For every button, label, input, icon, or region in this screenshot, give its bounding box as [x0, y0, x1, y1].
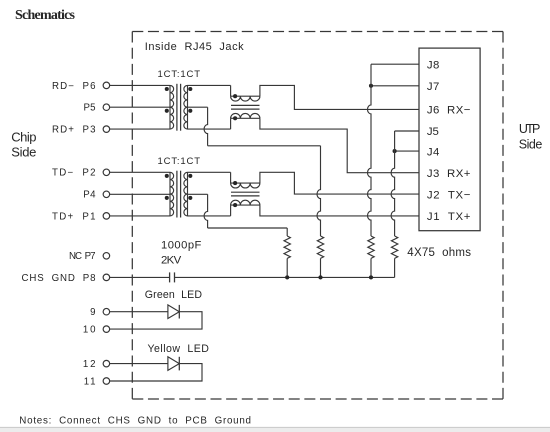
connector J (RJ45 jack) body	[419, 48, 480, 231]
resistor R4 bottom lead	[394, 258, 396, 277]
choke L2 polarity dots	[233, 181, 237, 207]
RX center-tap vertical with hop over P3 wire	[204, 107, 208, 146]
svg-text:Schematics: Schematics	[15, 8, 76, 23]
svg-text:P5: P5	[84, 103, 96, 114]
wire P4 to T2 primary center tap	[110, 193, 170, 195]
T2 polarity dots	[165, 174, 193, 200]
transformer T1 core	[177, 84, 181, 131]
label 4X75 ohms	[407, 247, 471, 259]
junction dot R1/bus	[285, 275, 289, 279]
svg-text:J2 TX−: J2 TX−	[427, 189, 471, 201]
transformer T1 primary winding	[170, 85, 174, 129]
window status bar	[0, 427, 550, 432]
junction dot R2/bus	[318, 275, 322, 279]
wire P3 to T1 primary	[110, 128, 170, 130]
pin 10 terminal circle	[103, 326, 110, 333]
dashed enclosure (Inside RJ45 Jack boundary)	[132, 32, 503, 400]
resistor R3 zigzag	[368, 236, 374, 258]
choke L1 polarity dots	[233, 94, 237, 120]
title Schematics	[15, 8, 76, 23]
resistor R3 bottom lead	[370, 258, 372, 277]
choke L1 bottom-left vertical	[230, 118, 232, 129]
chip-side pin labels	[22, 81, 97, 388]
wire pin 12 to LED D2	[110, 363, 168, 365]
svg-text:UTP: UTP	[519, 122, 540, 136]
svg-text:J5: J5	[427, 126, 439, 138]
wire T2 secondary center tap	[188, 193, 208, 195]
wire P6 to T1 primary	[110, 84, 170, 86]
svg-text:RD− P6: RD− P6	[52, 81, 96, 92]
svg-text:4X75 ohms: 4X75 ohms	[407, 247, 471, 259]
wire J7	[371, 85, 419, 87]
label Inside RJ45 Jack	[145, 41, 244, 53]
wire T2 secondary bottom to choke L2	[188, 215, 231, 217]
svg-text:CHS GND P8: CHS GND P8	[22, 273, 96, 284]
svg-text:Side: Side	[519, 137, 543, 151]
wire J5	[395, 130, 419, 132]
svg-text:RD+ P3: RD+ P3	[52, 125, 96, 136]
pin P7 (NC) terminal circle	[103, 253, 110, 259]
wire RX center tap to resistor R2	[208, 145, 321, 147]
wire T1 secondary bottom to choke L1	[188, 128, 231, 130]
wire choke L2 top output to J2 (TX-)	[260, 172, 419, 194]
svg-text:1CT:1CT: 1CT:1CT	[158, 156, 201, 167]
svg-text:1CT:1CT: 1CT:1CT	[158, 69, 201, 80]
transformer T1 secondary winding	[184, 85, 188, 129]
pin 12 terminal circle	[103, 360, 110, 367]
resistor R1 zigzag	[284, 236, 290, 258]
wire TX center tap to resistor R1	[208, 227, 288, 229]
notes text	[19, 415, 251, 426]
resistor R2 branch vertical with hops	[317, 146, 320, 236]
wire P2 to T2 primary	[110, 171, 170, 173]
pin P1 terminal circle	[103, 213, 110, 220]
svg-text:NC P7: NC P7	[69, 251, 96, 262]
choke L2 bottom winding	[231, 200, 260, 205]
svg-text:J6 RX−: J6 RX−	[427, 105, 471, 117]
transformer T2 secondary winding	[184, 172, 188, 216]
pin P8 (CHS GND) terminal circle	[103, 274, 110, 281]
svg-text:Yellow LED: Yellow LED	[148, 343, 210, 355]
svg-text:11: 11	[84, 376, 96, 387]
svg-text:J7: J7	[427, 81, 439, 93]
choke L2 bottom-left vertical	[230, 205, 232, 216]
label Yellow LED	[148, 343, 210, 355]
choke L2 input vertical (top)	[230, 172, 232, 183]
wire J4	[395, 150, 419, 152]
wire P5 to T1 primary center tap	[110, 106, 170, 108]
wire T1 secondary top to choke L1	[188, 84, 231, 86]
svg-text:J8: J8	[427, 59, 439, 71]
pin P5 terminal circle	[103, 104, 110, 111]
svg-text:Side: Side	[11, 145, 36, 160]
junction dot J7/R3	[369, 84, 373, 88]
pin P2 terminal circle	[103, 169, 110, 176]
svg-text:12: 12	[83, 359, 96, 370]
svg-text:J4: J4	[427, 146, 439, 158]
svg-text:J1 TX+: J1 TX+	[427, 211, 471, 223]
LED D1 (Green) diode	[168, 305, 179, 319]
wire P8 to capacitor C1	[110, 276, 170, 278]
svg-text:P4: P4	[83, 190, 96, 201]
choke L2 core	[231, 192, 260, 196]
transformer T2 primary winding	[170, 172, 174, 216]
pin 9 terminal circle	[103, 308, 110, 315]
wire choke L1 bottom output to J3 (RX+)	[260, 118, 419, 172]
pin 11 terminal circle	[103, 378, 110, 385]
choke L1 core	[231, 105, 260, 109]
svg-text:J3 RX+: J3 RX+	[427, 168, 471, 180]
resistor R2 bottom lead	[320, 258, 322, 277]
wire LED D2 return loop to pin 11	[110, 364, 202, 381]
choke L1 bottom winding	[231, 113, 260, 118]
choke L2 top winding	[231, 183, 260, 188]
label 1CT:1CT (T1)	[158, 69, 201, 80]
svg-text:9: 9	[90, 307, 95, 318]
choke L1 top winding	[231, 96, 260, 101]
resistor R1 bottom lead	[286, 258, 288, 277]
TX center-tap vertical with hop over P1 wire	[204, 194, 208, 228]
wire T2 secondary top to choke L2	[188, 171, 231, 173]
pin P3 terminal circle	[103, 126, 110, 133]
label 2KV	[161, 255, 182, 267]
resistor R4 branch vertical with hops	[391, 131, 394, 236]
svg-text:1000pF: 1000pF	[161, 239, 202, 251]
wire pin 9 to LED D1	[110, 311, 168, 313]
label UTP Side	[519, 122, 543, 151]
resistor R3 branch vertical with hops	[368, 64, 371, 236]
T1 polarity dots	[165, 87, 193, 113]
label Chip Side	[11, 130, 36, 160]
svg-text:Chip: Chip	[11, 130, 36, 145]
choke L1 input vertical (top)	[230, 85, 232, 96]
wire choke L2 bottom output to J1 (TX+)	[260, 205, 419, 216]
pin P4 terminal circle	[103, 191, 110, 198]
wire P1 to T2 primary	[110, 215, 170, 217]
svg-text:Notes: Connect CHS GND to: Notes: Connect CHS GND to PCB Ground	[19, 415, 251, 426]
transformer T2 core	[177, 171, 181, 218]
junction dot J4/R4	[393, 149, 397, 153]
resistor R1 branch vertical	[286, 228, 288, 236]
LED D2 (Yellow) diode	[168, 357, 179, 371]
label 1CT:1CT (T2)	[158, 156, 201, 167]
wire LED D1 return loop to pin 10	[110, 312, 202, 329]
label Green LED	[145, 289, 203, 301]
wire capacitor C1 to termination bus	[175, 276, 395, 278]
label 1000pF	[161, 239, 202, 251]
junction dot R3/bus	[369, 275, 373, 279]
wire choke L1 top output to J6 (RX-)	[260, 85, 419, 109]
connector pin labels J1-J8	[427, 59, 471, 222]
resistor R4 zigzag	[391, 236, 397, 258]
svg-text:2KV: 2KV	[161, 255, 182, 267]
pin P6 terminal circle	[103, 82, 110, 89]
svg-text:Inside RJ45 Jack: Inside RJ45 Jack	[145, 41, 244, 53]
svg-text:Green LED: Green LED	[145, 289, 203, 301]
wire J8	[371, 63, 419, 65]
svg-text:10: 10	[83, 325, 96, 336]
wire T1 secondary center tap	[188, 106, 208, 108]
capacitor C1 plates	[170, 272, 175, 282]
resistor R2 zigzag	[317, 236, 323, 258]
